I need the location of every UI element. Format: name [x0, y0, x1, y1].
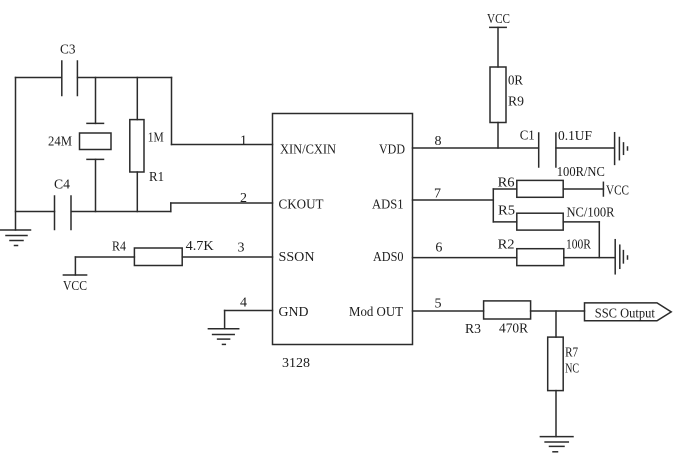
svg-text:R7: R7 — [565, 346, 578, 361]
wire crystal top lead — [95, 78, 97, 124]
wire pin1 to XIN/CXIN — [172, 144, 273, 146]
wire R5 right horizontal — [563, 221, 599, 223]
svg-text:VCC: VCC — [487, 12, 510, 27]
wire R5 down vertical — [598, 222, 600, 258]
resistor R1 1M — [130, 120, 144, 172]
svg-text:CKOUT: CKOUT — [279, 198, 324, 213]
capacitor C1 0.1UF — [539, 133, 556, 167]
wire R3 to SSC flag — [531, 310, 585, 312]
svg-text:R6: R6 — [498, 176, 515, 191]
wire crystal bottom lead — [95, 159, 97, 211]
svg-text:3128: 3128 — [282, 356, 310, 371]
wire node vertical R6-R5 — [492, 189, 494, 222]
wire left vertical — [15, 78, 17, 231]
wire top-left horizontal to C3 — [16, 77, 62, 79]
svg-text:R2: R2 — [498, 238, 515, 253]
svg-text:C4: C4 — [54, 178, 70, 193]
wire R6 to VCC tick — [563, 188, 603, 190]
capacitor C3 — [62, 61, 78, 96]
svg-text:24M: 24M — [48, 135, 72, 150]
svg-text:3: 3 — [238, 241, 245, 256]
op-amp U1 3128 IC body — [273, 114, 413, 345]
svg-text:NC/100R: NC/100R — [567, 206, 616, 221]
svg-text:SSC Output: SSC Output — [595, 307, 655, 322]
svg-text:2: 2 — [240, 191, 247, 206]
svg-text:1: 1 — [240, 134, 247, 149]
resistor R2 100R — [517, 249, 564, 266]
wire jog vertical — [170, 203, 172, 212]
svg-text:NC: NC — [565, 362, 579, 377]
svg-text:4: 4 — [240, 295, 247, 310]
wire VCC to R9 — [497, 27, 499, 67]
ground at pin4 — [208, 329, 238, 345]
resistor R6 100R/NC — [517, 180, 563, 197]
svg-text:4.7K: 4.7K — [186, 239, 214, 254]
wire C1 to ground — [556, 147, 614, 149]
power VCC right tick — [602, 182, 604, 196]
svg-text:R9: R9 — [508, 95, 524, 110]
resistor R5 NC/100R — [517, 213, 563, 230]
wire C4 to jog — [72, 211, 171, 213]
resistor R9 0R — [490, 67, 506, 123]
wire VCC stub to R4 — [74, 257, 76, 275]
power VCC left bar — [63, 274, 86, 276]
crystal Y1 24M — [80, 123, 112, 159]
svg-text:R4: R4 — [112, 240, 126, 255]
wire pin4 GND horizontal — [225, 310, 273, 312]
wire VCC to R4 left — [75, 256, 134, 258]
svg-text:R5: R5 — [498, 204, 515, 219]
svg-text:R3: R3 — [465, 322, 481, 337]
resistor R4 4.7K — [134, 248, 182, 266]
resistor R3 470R — [484, 301, 531, 319]
node SSC Output flag — [585, 303, 672, 321]
resistor R7 NC — [548, 337, 564, 391]
wire pin2 to CKOUT — [171, 202, 273, 204]
svg-text:6: 6 — [435, 240, 442, 255]
ground rotated after R2 — [615, 240, 627, 274]
wire R9 to pin8 node — [497, 123, 499, 149]
svg-text:ADS0: ADS0 — [373, 250, 404, 265]
svg-text:R1: R1 — [149, 170, 164, 185]
ground rotated after C1 — [615, 133, 628, 165]
svg-text:7: 7 — [434, 187, 441, 202]
wire pin4 GND vertical — [224, 311, 226, 329]
svg-text:1M: 1M — [148, 131, 164, 146]
wire R1 bottom lead — [136, 172, 138, 212]
wire node to R7 — [555, 311, 557, 337]
svg-text:Mod OUT: Mod OUT — [349, 305, 403, 320]
svg-text:C3: C3 — [60, 43, 76, 58]
wire R1 top lead — [136, 78, 138, 120]
wire right corner vertical — [171, 78, 173, 145]
wire node to R5 — [493, 221, 517, 223]
wire node to R6 — [493, 188, 517, 190]
power VCC top bar — [490, 26, 506, 28]
wire pin5 ModOUT to R3 — [413, 310, 484, 312]
svg-text:100R/NC: 100R/NC — [557, 165, 605, 180]
svg-text:GND: GND — [279, 305, 309, 320]
svg-text:0R: 0R — [508, 74, 524, 89]
svg-text:ADS1: ADS1 — [372, 198, 404, 213]
svg-text:0.1UF: 0.1UF — [558, 129, 592, 144]
svg-text:VCC: VCC — [63, 279, 87, 294]
ground below C4 — [1, 230, 31, 246]
svg-text:VCC: VCC — [606, 184, 629, 199]
svg-text:XIN/CXIN: XIN/CXIN — [280, 142, 336, 157]
svg-text:C1: C1 — [520, 129, 535, 144]
svg-text:470R: 470R — [499, 322, 529, 337]
wire R2 to ground — [564, 257, 614, 259]
svg-text:SSON: SSON — [279, 250, 315, 265]
ground below R7 — [540, 437, 573, 452]
wire R7 to ground — [555, 391, 557, 437]
wire pin6 ADS0 to R2 — [413, 257, 517, 259]
svg-text:VDD: VDD — [379, 142, 405, 157]
wire C3 to top-right corner — [78, 77, 172, 79]
wire R4 to pin3 SSON — [182, 256, 272, 258]
svg-text:5: 5 — [435, 297, 442, 312]
wire pin8 VDD to C1 — [413, 147, 539, 149]
capacitor C4 — [55, 196, 72, 230]
svg-text:8: 8 — [435, 134, 442, 149]
wire bottom-left horizontal to C4 — [16, 211, 55, 213]
wire pin7 ADS1 to node — [413, 199, 494, 201]
svg-text:100R: 100R — [566, 238, 592, 253]
